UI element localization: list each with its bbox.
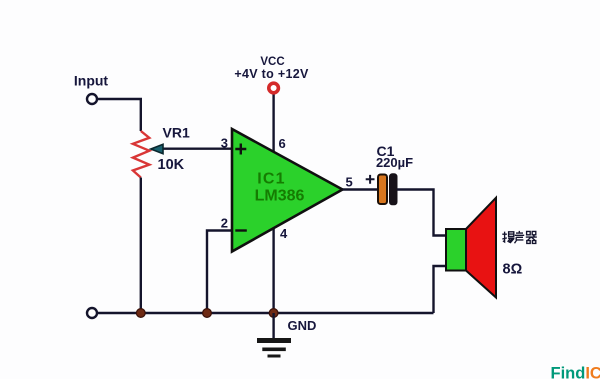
terminal: Input jack [87, 94, 97, 104]
capacitor C1 polarity + [366, 175, 375, 184]
speaker driver body [446, 229, 466, 271]
wire: pin 2 loop to ground rail [207, 231, 233, 314]
potentiometer VR1 resistive element [133, 131, 149, 178]
svg-text:10K: 10K [158, 157, 185, 173]
svg-text:Input: Input [74, 73, 109, 89]
label speaker (CJK yang-sheng-qi) [502, 231, 537, 244]
svg-text:GND: GND [288, 318, 317, 333]
capacitor C1 negative plate [390, 174, 398, 205]
wiper arrow of VR1 [151, 144, 163, 153]
terminal: VCC [269, 83, 279, 93]
wire: pin 4 to ground rail [272, 226, 274, 313]
wire: ground rail [98, 312, 434, 314]
svg-text:2: 2 [221, 216, 228, 231]
wire: rail to ground symbol [272, 313, 274, 338]
non-inverting input marker + [235, 144, 246, 155]
svg-text:3: 3 [221, 136, 228, 151]
wire: pin 6 to VCC terminal [272, 95, 274, 155]
wire: VR1 bottom to ground rail [140, 178, 142, 314]
wire: speaker bottom terminal to ground rail [434, 266, 447, 313]
svg-text:8Ω: 8Ω [503, 262, 523, 278]
capacitor C1 positive plate [378, 175, 387, 205]
svg-text:4: 4 [280, 226, 288, 241]
wire: pin 5 to C1 [343, 188, 378, 190]
junction: pin2 / rail [203, 309, 212, 318]
svg-text:FindIC: FindIC [551, 365, 600, 379]
terminal: ground-side jack [87, 308, 97, 318]
svg-text:LM386: LM386 [255, 188, 305, 205]
junction: pin4 / rail [269, 309, 278, 318]
ground symbol [257, 338, 291, 358]
svg-text:6: 6 [279, 136, 286, 151]
svg-text:+4V to +12V: +4V to +12V [234, 67, 309, 81]
svg-text:220µF: 220µF [376, 155, 413, 170]
wire: wiper to pin 3 [158, 147, 233, 149]
svg-text:IC1: IC1 [257, 171, 286, 188]
wire: input jack to VR1 top [98, 99, 141, 131]
svg-text:5: 5 [346, 175, 353, 190]
speaker cone [466, 198, 496, 298]
junction: VR1 / rail [136, 309, 145, 318]
op-amp U1 (IC1 LM386 triangle) [232, 129, 343, 252]
wire: C1 to speaker top terminal [397, 190, 446, 236]
svg-text:VR1: VR1 [163, 125, 190, 141]
inverting input marker - [235, 229, 247, 231]
